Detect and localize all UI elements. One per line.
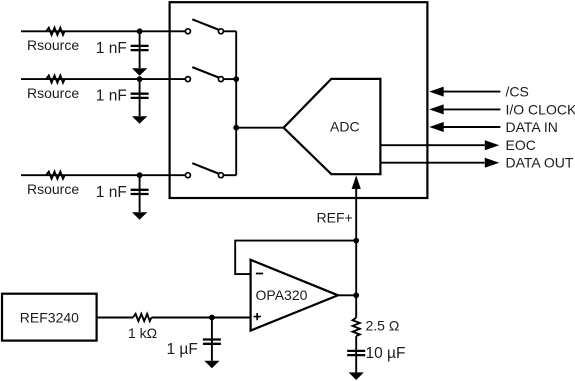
node ch1 junction xyxy=(137,28,143,34)
input arrow DATA IN xyxy=(429,122,500,132)
wire resistor to 10uF xyxy=(355,336,357,372)
svg-text:ADC: ADC xyxy=(330,119,360,135)
node op-amp output junction xyxy=(353,292,359,298)
node ch3 junction xyxy=(137,172,143,178)
svg-text:1 nF: 1 nF xyxy=(96,184,127,201)
node bus-ADC input xyxy=(233,125,239,131)
svg-text:/CS: /CS xyxy=(506,84,529,100)
svg-text:REF3240: REF3240 xyxy=(20,309,79,325)
op-amp plus sign xyxy=(254,313,261,320)
ground (ch3) xyxy=(132,212,147,220)
svg-text:1 nF: 1 nF xyxy=(96,40,127,57)
switch S2 xyxy=(185,67,223,82)
arrowhead REF+ into ADC xyxy=(352,175,361,189)
wire REF+ vertical xyxy=(355,187,357,295)
capacitor 1 nF (ch1) xyxy=(131,31,149,68)
resistor Rsource (ch3) xyxy=(46,172,64,179)
svg-text:DATA IN: DATA IN xyxy=(506,119,558,135)
svg-text:Rsource: Rsource xyxy=(27,37,79,53)
capacitor 1 uF xyxy=(203,318,221,361)
switch S3 xyxy=(185,163,223,178)
output arrowhead DATA OUT xyxy=(485,158,500,168)
svg-text:EOC: EOC xyxy=(506,137,536,153)
svg-text:REF+: REF+ xyxy=(317,210,353,226)
channel 1: wire xyxy=(21,30,236,32)
resistor Rsource (ch1) xyxy=(46,28,64,35)
resistor 2.5 Ohm (vertical) xyxy=(353,318,360,336)
ground (1uF) xyxy=(204,361,219,369)
wire bus to ADC xyxy=(236,127,284,129)
wire output to RC xyxy=(355,295,357,317)
resistor Rsource (ch2) xyxy=(46,76,64,83)
resistor 1 kOhm xyxy=(133,314,151,321)
wire output DATA OUT line xyxy=(380,162,484,164)
input arrow I/O CLOCK xyxy=(429,104,500,114)
node feedback junction xyxy=(353,238,359,244)
REF3240 box U3 xyxy=(2,294,97,341)
wire output EOC line xyxy=(380,144,484,146)
svg-text:1 kΩ: 1 kΩ xyxy=(128,325,157,341)
node bus-ch2 xyxy=(233,76,239,82)
op-amp style ADC symbol U1 xyxy=(284,79,381,174)
capacitor 10 uF xyxy=(347,351,365,355)
ground (ch1) xyxy=(132,68,147,76)
wire op-amp output xyxy=(338,294,356,296)
svg-text:2.5 Ω: 2.5 Ω xyxy=(366,318,400,334)
svg-text:DATA OUT: DATA OUT xyxy=(506,155,574,171)
wire resistor to op-amp xyxy=(151,317,250,319)
svg-text:OPA320: OPA320 xyxy=(256,287,308,303)
node 1uF junction xyxy=(209,315,215,321)
node ch2 junction xyxy=(137,76,143,82)
svg-text:Rsource: Rsource xyxy=(27,181,79,197)
svg-text:I/O CLOCK: I/O CLOCK xyxy=(506,101,575,117)
ADC chip box xyxy=(170,2,428,198)
svg-text:10 µF: 10 µF xyxy=(366,345,406,362)
output arrowhead EOC xyxy=(485,140,500,150)
ground (10uF) xyxy=(349,372,364,380)
channel 2: wire xyxy=(21,78,236,80)
op-amp OPA320 U2 xyxy=(251,260,338,331)
wire REF3240 to resistor xyxy=(97,317,133,319)
wire feedback loop xyxy=(235,241,356,275)
svg-text:1 µF: 1 µF xyxy=(167,341,198,358)
ground (ch2) xyxy=(132,116,147,124)
switch S1 xyxy=(185,19,223,34)
svg-text:1 nF: 1 nF xyxy=(96,88,127,105)
op-amp minus sign xyxy=(256,273,263,275)
svg-text:Rsource: Rsource xyxy=(27,85,79,101)
wire mux bus xyxy=(235,31,237,175)
channel 3: wire xyxy=(21,174,236,176)
input arrow /CS xyxy=(429,87,500,97)
capacitor 1 nF (ch2) xyxy=(131,79,149,116)
capacitor 1 nF (ch3) xyxy=(131,175,149,212)
